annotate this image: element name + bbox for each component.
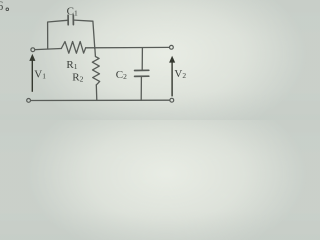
resistor R2 xyxy=(92,49,99,85)
arrow V2 xyxy=(169,56,175,97)
node: bottom-left terminal xyxy=(27,99,31,103)
svg-text:R2: R2 xyxy=(72,71,83,83)
wire: R2 bottom to bottom wire xyxy=(95,85,98,100)
wire: C1 loop left vertical xyxy=(48,20,68,49)
node: top-left terminal xyxy=(31,48,35,52)
resistor R1 xyxy=(61,42,85,54)
wire: bottom xyxy=(31,99,170,101)
svg-text:V2: V2 xyxy=(174,68,186,80)
wire: C1 loop right vertical xyxy=(74,20,95,48)
corner fragment small circle xyxy=(6,8,9,11)
svg-text:6: 6 xyxy=(0,0,4,13)
svg-text:C1: C1 xyxy=(67,5,78,17)
svg-text:V1: V1 xyxy=(34,69,46,81)
svg-text:C2: C2 xyxy=(116,69,127,81)
wire: C2 top stub xyxy=(141,48,143,70)
node: bottom-right terminal xyxy=(170,98,174,102)
wire: C2 bottom stub xyxy=(140,77,142,100)
capacitor C2 xyxy=(135,70,149,76)
arrow V1 xyxy=(29,54,35,92)
wire: top-left terminal to R1 xyxy=(35,49,61,50)
wire: R1 to top-right terminal xyxy=(86,46,169,48)
svg-text:R1: R1 xyxy=(66,59,77,71)
capacitor C1 xyxy=(68,15,73,25)
node: top-right terminal xyxy=(170,45,174,49)
